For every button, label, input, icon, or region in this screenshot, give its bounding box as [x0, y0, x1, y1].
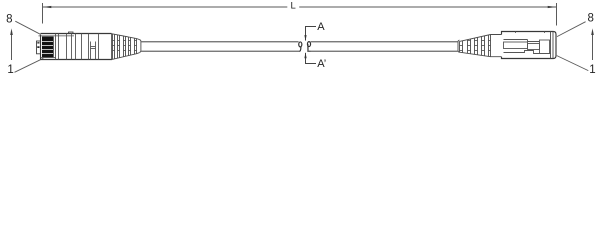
left plug nose contact marks: [37, 42, 39, 43]
left plug rear wedge window: [91, 42, 96, 60]
left plug nose tab: [37, 41, 41, 54]
right boot end cap: [458, 40, 460, 52]
cable right segment top edge: [311, 41, 458, 43]
svg-text:8: 8: [587, 13, 593, 25]
dimension extension line right: [556, 3, 558, 26]
leader from right 1 to plug bottom front: [557, 56, 589, 71]
right boot rib rungs: [460, 41, 491, 51]
left boot rib pairs: [113, 34, 137, 60]
section leader A' bottom: [306, 53, 317, 64]
left plug bottom edge: [41, 59, 113, 61]
svg-text:1: 1: [589, 64, 595, 76]
leader from 8 to plug top corner: [15, 21, 40, 34]
right plug latch lines: [504, 40, 551, 54]
dimension extension line left: [42, 3, 44, 24]
leader from 1 to plug bottom corner: [15, 58, 44, 72]
right plug top tick 2: [515, 32, 517, 34]
left boot taper outline: [112, 34, 140, 60]
left plug top shelf line: [39, 35, 75, 37]
dimension line L horizontal: [43, 6, 557, 8]
svg-text:A’: A’: [317, 58, 326, 70]
right plug front contact lines: [551, 32, 554, 59]
section leader A top: [306, 27, 317, 41]
cable right segment bottom edge: [308, 50, 458, 52]
dimension arrowhead right: [548, 6, 557, 8]
cable left segment top edge: [141, 41, 299, 43]
pin direction arrow right: [591, 28, 594, 60]
left plug front face: [40, 35, 42, 60]
cable left segment bottom edge: [141, 50, 300, 52]
left plug internal division lines: [54, 34, 112, 60]
right boot taper outline: [460, 35, 502, 57]
svg-text:L: L: [291, 1, 296, 12]
section arrowhead A': [304, 52, 306, 58]
section arrowhead A: [304, 35, 306, 41]
left boot rib rungs: [113, 41, 137, 51]
svg-text:8: 8: [6, 14, 12, 26]
right plug body outline: [502, 32, 557, 59]
left plug contact block (8 contacts): [42, 37, 53, 58]
cable break loop left: [299, 42, 302, 51]
left plug top edge: [41, 33, 112, 35]
svg-text:1: 1: [7, 64, 13, 76]
left boot end cap: [139, 40, 141, 53]
left plug latch bump on top: [69, 32, 74, 34]
pin direction arrow left: [10, 28, 13, 60]
dimension arrowhead left: [43, 6, 52, 8]
leader from right 8 to plug front: [557, 22, 586, 37]
cable break loop right: [307, 42, 310, 52]
svg-text:A: A: [317, 21, 325, 33]
right boot rib pairs: [460, 35, 491, 57]
right plug top tick: [544, 32, 546, 34]
left plug inner bottom line: [41, 57, 57, 59]
